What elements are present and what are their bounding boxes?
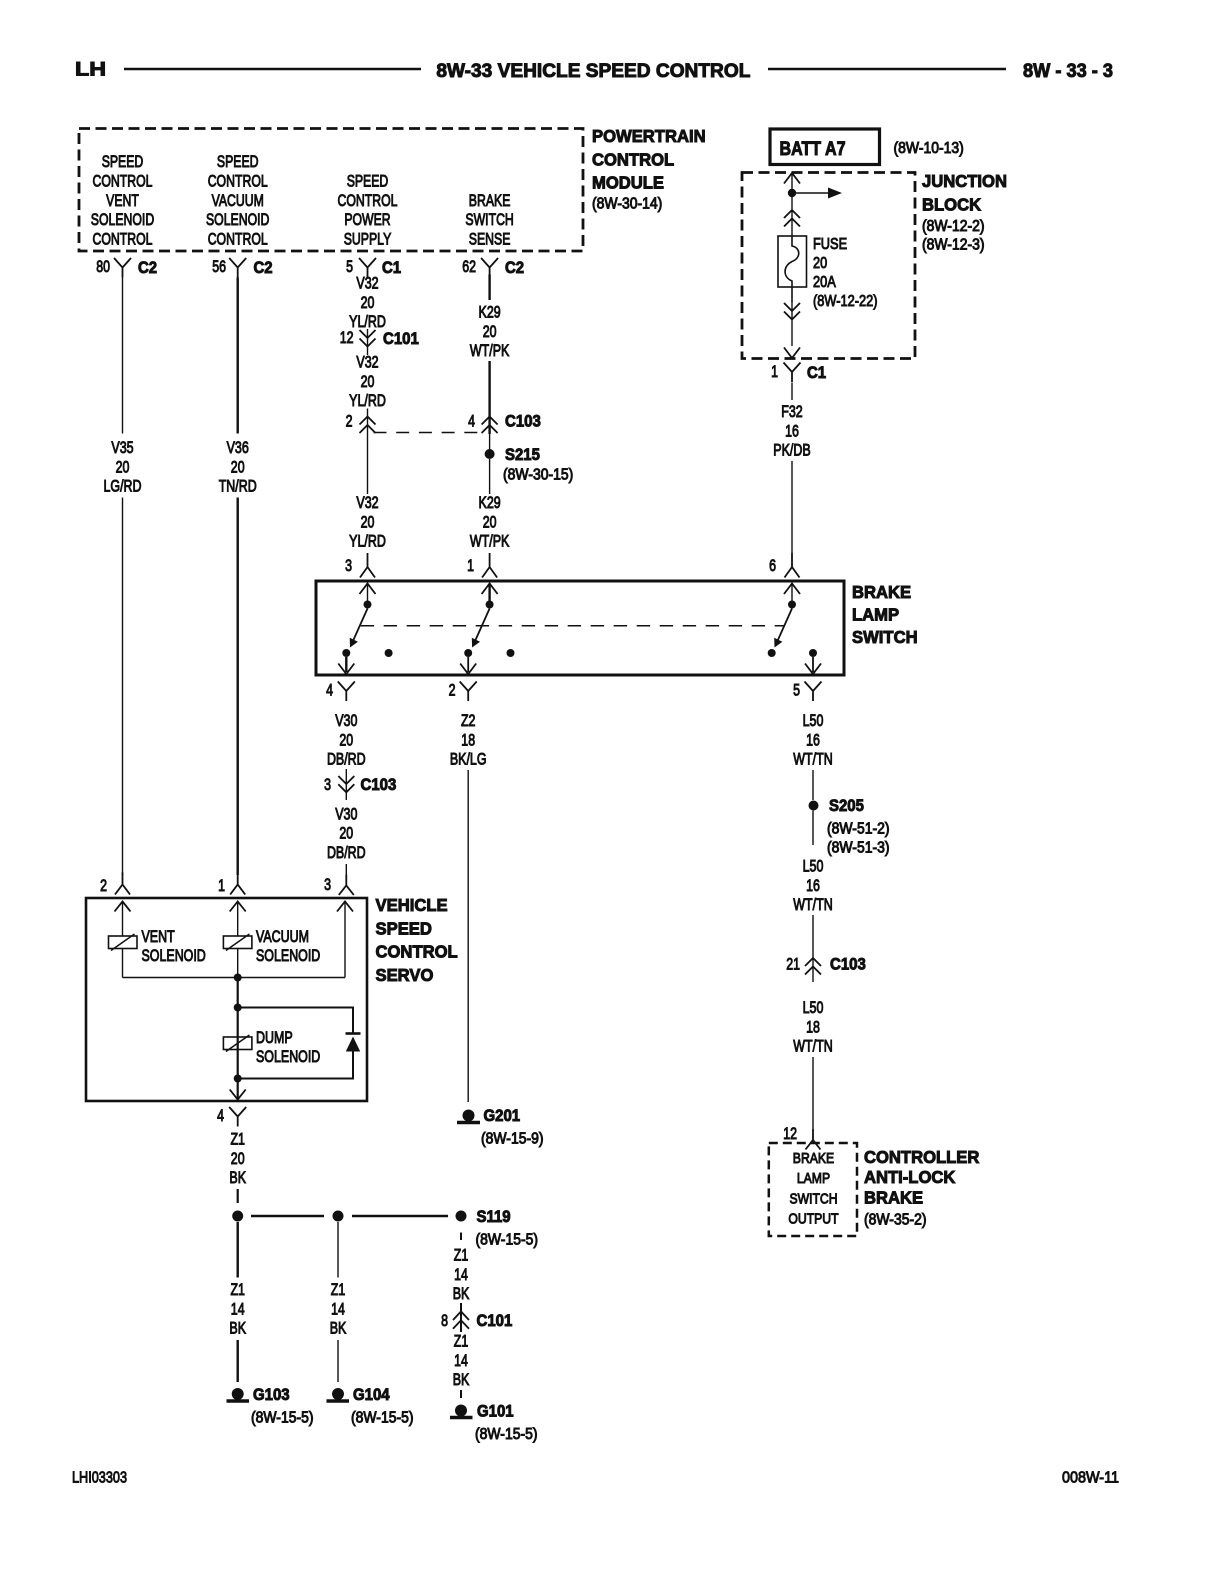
svg-text:18: 18	[461, 730, 475, 749]
svg-text:21: 21	[786, 955, 800, 974]
splice node middle	[333, 1211, 344, 1222]
svg-text:L50: L50	[803, 998, 824, 1017]
svg-text:Z1: Z1	[230, 1280, 245, 1299]
svg-text:4: 4	[468, 412, 475, 431]
svg-text:LAMP: LAMP	[852, 605, 899, 625]
servo entry arrow pin 2	[115, 902, 131, 912]
svg-text:SUPPLY: SUPPLY	[344, 230, 392, 249]
svg-text:3: 3	[324, 775, 331, 794]
connector pin 3 at servo	[339, 875, 354, 896]
svg-text:1: 1	[218, 876, 225, 895]
svg-text:8: 8	[441, 1311, 448, 1330]
svg-text:VACUUM: VACUUM	[256, 927, 309, 946]
svg-text:(8W-30-14): (8W-30-14)	[592, 196, 662, 213]
svg-text:14: 14	[454, 1351, 468, 1370]
connector C1 pin 5	[359, 258, 376, 278]
wire vent solenoid to rail	[122, 949, 124, 978]
arrow to BATT A7	[784, 173, 800, 184]
svg-text:WT/TN: WT/TN	[793, 750, 832, 769]
svg-text:S119: S119	[477, 1207, 511, 1226]
dashed link C103 between pin2 and pin4	[374, 432, 483, 434]
wire to junction block exit	[791, 302, 793, 346]
svg-text:(8W-12-3): (8W-12-3)	[922, 237, 985, 254]
svg-text:DUMP: DUMP	[256, 1028, 293, 1047]
wire to G104	[337, 1222, 339, 1278]
svg-text:Z1: Z1	[454, 1332, 469, 1351]
svg-text:S215: S215	[505, 445, 540, 464]
wire to splice S205	[812, 770, 814, 800]
connector C103 pin 3	[345, 769, 347, 800]
wire V35 upper segment	[122, 278, 124, 434]
wire Z1 dashed stub to G101	[460, 1390, 462, 1398]
svg-text:CONTROL: CONTROL	[208, 230, 268, 249]
connector C2 pin 56	[229, 258, 246, 278]
svg-text:20: 20	[361, 512, 375, 531]
svg-text:DB/RD: DB/RD	[327, 843, 366, 862]
dump branch junction node	[234, 1004, 242, 1012]
svg-text:Z1: Z1	[331, 1280, 346, 1299]
lower branch junction node	[234, 1075, 242, 1083]
connector C2 pin 62	[481, 258, 498, 278]
svg-text:20: 20	[231, 457, 245, 476]
svg-text:C103: C103	[505, 412, 541, 431]
svg-text:12: 12	[340, 328, 354, 347]
svg-text:(8W-51-3): (8W-51-3)	[827, 840, 890, 857]
svg-text:V30: V30	[335, 804, 357, 823]
svg-text:16: 16	[806, 730, 820, 749]
connector pin 5 below brake lamp switch	[805, 682, 822, 702]
svg-text:G101: G101	[477, 1402, 514, 1421]
svg-text:ANTI-LOCK: ANTI-LOCK	[864, 1167, 956, 1187]
svg-text:BRAKE: BRAKE	[852, 582, 911, 602]
svg-text:2: 2	[449, 681, 456, 700]
svg-text:SWITCH: SWITCH	[789, 1191, 837, 1207]
svg-text:SOLENOID: SOLENOID	[206, 210, 269, 229]
fuse 20 20A (8W-12-22)	[778, 236, 807, 287]
svg-text:SWITCH: SWITCH	[465, 210, 513, 229]
svg-text:C103: C103	[830, 955, 866, 974]
svg-text:(8W-15-5): (8W-15-5)	[475, 1426, 538, 1443]
svg-text:SOLENOID: SOLENOID	[256, 946, 320, 965]
controller anti-lock brake dashed box	[769, 1143, 857, 1236]
svg-text:C1: C1	[807, 363, 826, 382]
wire battery feed upper	[791, 173, 793, 193]
diode branch wiring	[238, 1008, 353, 1079]
svg-text:L50: L50	[803, 857, 824, 876]
svg-text:3: 3	[345, 556, 352, 575]
wire K29 middle segment	[488, 361, 490, 434]
svg-text:2: 2	[346, 412, 353, 431]
svg-text:008W-11: 008W-11	[1062, 1470, 1119, 1487]
svg-text:WT/PK: WT/PK	[470, 532, 509, 551]
servo entry arrow pin 1	[230, 902, 246, 912]
svg-text:(8W-15-5): (8W-15-5)	[351, 1410, 414, 1427]
wire V30 to servo	[345, 864, 347, 876]
wire F32 long segment	[791, 461, 793, 553]
svg-text:5: 5	[346, 257, 353, 276]
svg-text:CONTROL: CONTROL	[93, 171, 153, 190]
wire K29 upper segment	[488, 275, 490, 301]
ground bus right segment	[352, 1215, 448, 1218]
svg-text:L50: L50	[803, 711, 824, 730]
ground G103 (8W-15-5)	[232, 1388, 244, 1400]
svg-text:18: 18	[806, 1017, 820, 1036]
svg-text:Z2: Z2	[461, 711, 476, 730]
ground bus left segment	[251, 1215, 324, 1218]
svg-text:VACUUM: VACUUM	[212, 191, 264, 210]
svg-text:BRAKE: BRAKE	[864, 1187, 923, 1207]
wire V36 upper segment	[236, 278, 238, 434]
svg-text:BK/LG: BK/LG	[450, 750, 487, 769]
svg-text:SOLENOID: SOLENOID	[256, 1047, 320, 1066]
svg-text:20: 20	[361, 293, 375, 312]
connector C103 pin 4	[482, 417, 498, 434]
switch 1 spare contact	[385, 649, 393, 657]
connector pin 1 at brake lamp switch	[482, 553, 497, 578]
svg-text:F32: F32	[781, 402, 803, 421]
svg-text:BK: BK	[453, 1370, 470, 1389]
svg-text:SPEED: SPEED	[347, 171, 389, 190]
svg-text:(8W-30-15): (8W-30-15)	[503, 467, 573, 484]
connector pin 3 at brake lamp switch	[360, 553, 375, 578]
switch 1 contacts and blade	[360, 584, 376, 595]
wire to G103	[236, 1222, 238, 1278]
svg-text:C101: C101	[477, 1311, 513, 1330]
connector C101 pin 8	[460, 1303, 462, 1332]
connector pin 2 at servo	[115, 873, 130, 895]
svg-text:POWERTRAIN: POWERTRAIN	[592, 126, 706, 146]
arrow at junction block exit	[784, 348, 800, 359]
svg-text:LH: LH	[75, 59, 106, 81]
svg-text:14: 14	[454, 1265, 468, 1284]
switch 2 spare contact	[507, 649, 515, 657]
svg-text:C2: C2	[505, 258, 524, 277]
svg-text:CONTROL: CONTROL	[376, 942, 458, 962]
svg-text:1: 1	[467, 556, 474, 575]
svg-text:SOLENOID: SOLENOID	[91, 210, 154, 229]
svg-text:CONTROL: CONTROL	[592, 149, 674, 169]
svg-text:MODULE: MODULE	[592, 173, 664, 193]
svg-text:20: 20	[231, 1149, 245, 1168]
ground G101 (8W-15-5)	[455, 1405, 467, 1417]
dump solenoid coil	[223, 1037, 252, 1050]
svg-text:Z1: Z1	[454, 1246, 469, 1265]
center wire through dump solenoid	[237, 978, 239, 1099]
svg-text:PK/DB: PK/DB	[773, 441, 810, 460]
svg-text:BRAKE: BRAKE	[469, 191, 511, 210]
splice S205 (8W-51-2) (8W-51-3)	[809, 801, 819, 811]
svg-text:FUSE: FUSE	[813, 236, 847, 253]
diode D (clamp)	[346, 1032, 361, 1035]
svg-text:(8W-10-13): (8W-10-13)	[894, 140, 964, 157]
svg-text:BK: BK	[229, 1168, 246, 1187]
svg-text:20: 20	[361, 372, 375, 391]
svg-text:VENT: VENT	[106, 191, 139, 210]
svg-text:WT/PK: WT/PK	[470, 341, 509, 360]
svg-text:Z1: Z1	[230, 1130, 245, 1149]
svg-text:20: 20	[483, 322, 497, 341]
svg-text:20: 20	[116, 457, 130, 476]
switch gang dashed link	[361, 625, 785, 627]
svg-text:V35: V35	[111, 438, 133, 457]
wire to splice S215	[489, 434, 491, 450]
connector chevrons above fuse	[784, 210, 800, 227]
svg-text:YL/RD: YL/RD	[349, 532, 386, 551]
servo exit arrow	[230, 1090, 246, 1100]
svg-text:6: 6	[769, 556, 776, 575]
svg-text:K29: K29	[479, 493, 501, 512]
rail junction node	[234, 974, 242, 982]
svg-text:V36: V36	[227, 438, 249, 457]
header rule right	[768, 68, 1006, 71]
vehicle speed control servo box	[86, 898, 367, 1101]
power source box BATT A7	[770, 129, 880, 165]
svg-text:20: 20	[339, 824, 353, 843]
svg-text:S205: S205	[829, 796, 864, 815]
svg-text:BLOCK: BLOCK	[922, 194, 981, 214]
vent solenoid coil	[109, 936, 138, 949]
svg-text:(8W-15-5): (8W-15-5)	[476, 1232, 539, 1249]
connector pin 1 at servo	[230, 873, 245, 895]
connector C1 pin 1	[784, 363, 801, 383]
junction node with branch arrow	[788, 189, 796, 197]
svg-text:62: 62	[462, 257, 476, 276]
wire L50 to controller	[812, 1057, 814, 1129]
svg-text:(8W-35-2): (8W-35-2)	[864, 1212, 927, 1229]
vacuum solenoid coil	[223, 936, 252, 949]
wire F32 upper stub	[791, 383, 793, 401]
connector pin 4 below brake lamp switch	[338, 682, 355, 702]
svg-text:C1: C1	[382, 258, 401, 277]
svg-text:G104: G104	[353, 1385, 390, 1404]
svg-text:CONTROL: CONTROL	[338, 191, 398, 210]
svg-text:16: 16	[785, 421, 799, 440]
svg-text:TN/RD: TN/RD	[219, 477, 257, 496]
svg-text:OUTPUT: OUTPUT	[788, 1212, 838, 1228]
connector C2 pin 80	[114, 258, 131, 278]
svg-text:SPEED: SPEED	[376, 918, 432, 938]
wire Z2 long segment to ground	[467, 770, 469, 1102]
svg-text:LAMP: LAMP	[797, 1171, 830, 1187]
svg-text:8W - 33 - 3: 8W - 33 - 3	[1023, 60, 1113, 82]
svg-text:V30: V30	[335, 711, 357, 730]
svg-text:SERVO: SERVO	[376, 965, 434, 985]
connector pin 4 below servo	[229, 1107, 246, 1127]
wire V36 lower segment	[236, 498, 238, 876]
svg-text:(8W-12-22): (8W-12-22)	[813, 293, 878, 310]
svg-text:SENSE: SENSE	[469, 230, 511, 249]
svg-text:80: 80	[96, 257, 110, 276]
svg-text:CONTROL: CONTROL	[93, 230, 153, 249]
svg-text:JUNCTION: JUNCTION	[922, 171, 1007, 191]
svg-text:4: 4	[217, 1106, 224, 1125]
svg-text:BK: BK	[330, 1319, 347, 1338]
svg-text:12: 12	[783, 1124, 797, 1143]
connector pin 6 at brake lamp switch	[785, 553, 800, 578]
svg-text:WT/TN: WT/TN	[793, 895, 832, 914]
svg-text:(8W-15-9): (8W-15-9)	[481, 1131, 544, 1148]
ground G104 (8W-15-5)	[332, 1388, 344, 1400]
svg-text:20: 20	[339, 730, 353, 749]
svg-text:20A: 20A	[813, 274, 836, 291]
svg-text:YL/RD: YL/RD	[349, 391, 386, 410]
svg-text:LHI03303: LHI03303	[72, 1470, 127, 1487]
svg-text:G103: G103	[253, 1385, 290, 1404]
svg-text:K29: K29	[479, 303, 501, 322]
svg-text:20: 20	[483, 512, 497, 531]
svg-text:POWER: POWER	[344, 210, 390, 229]
splice node left	[232, 1211, 243, 1222]
svg-text:BRAKE: BRAKE	[793, 1151, 835, 1167]
svg-text:2: 2	[100, 876, 107, 895]
wire to fuse	[791, 193, 793, 236]
svg-text:20: 20	[813, 255, 827, 272]
svg-text:V32: V32	[356, 274, 378, 293]
svg-text:LG/RD: LG/RD	[104, 477, 142, 496]
svg-text:BK: BK	[453, 1284, 470, 1303]
svg-text:DB/RD: DB/RD	[327, 750, 366, 769]
svg-text:BK: BK	[229, 1319, 246, 1338]
junction block dashed box	[742, 173, 915, 359]
wire to vent solenoid	[122, 902, 124, 937]
svg-text:SOLENOID: SOLENOID	[142, 946, 206, 965]
svg-text:8W-33 VEHICLE SPEED CONTROL: 8W-33 VEHICLE SPEED CONTROL	[436, 60, 750, 82]
switch 3 output contact	[809, 649, 817, 657]
svg-text:(8W-12-2): (8W-12-2)	[922, 218, 985, 235]
ground G201 (8W-15-9)	[463, 1110, 475, 1122]
svg-text:C2: C2	[254, 258, 273, 277]
svg-text:5: 5	[793, 681, 800, 700]
svg-text:14: 14	[331, 1299, 345, 1318]
wire Z1 dashed stub	[237, 1189, 239, 1203]
connector pin 2 below brake lamp switch	[460, 682, 477, 702]
wire L50 segment	[812, 915, 814, 982]
svg-text:VEHICLE: VEHICLE	[376, 895, 448, 915]
connector chevrons below fuse	[784, 303, 800, 320]
svg-text:VENT: VENT	[142, 927, 175, 946]
svg-text:CONTROLLER: CONTROLLER	[864, 1147, 980, 1167]
svg-text:SWITCH: SWITCH	[852, 627, 918, 647]
svg-text:14: 14	[231, 1299, 245, 1318]
svg-text:YL/RD: YL/RD	[349, 312, 386, 331]
svg-text:4: 4	[326, 681, 333, 700]
connector pin 12 at controller	[806, 1129, 821, 1150]
servo entry arrow pin 3	[337, 902, 353, 912]
svg-text:WT/TN: WT/TN	[793, 1037, 832, 1056]
wire vacuum solenoid to rail	[237, 949, 239, 978]
svg-text:1: 1	[771, 362, 778, 381]
switch 2 contacts and blade	[482, 584, 498, 595]
powertrain control module dashed box	[79, 129, 583, 252]
wire to vacuum solenoid	[237, 902, 239, 937]
switch 3 contacts and blade	[784, 584, 800, 595]
header rule left	[124, 68, 421, 71]
svg-text:G201: G201	[484, 1106, 521, 1125]
svg-text:BATT A7: BATT A7	[780, 139, 846, 160]
svg-text:56: 56	[212, 257, 226, 276]
svg-text:16: 16	[806, 876, 820, 895]
svg-text:V32: V32	[356, 353, 378, 372]
svg-text:(8W-15-5): (8W-15-5)	[251, 1410, 314, 1427]
splice S119 (8W-15-5)	[456, 1211, 467, 1222]
wire pin 3 to rail	[344, 902, 346, 978]
wire V35 lower segment	[122, 498, 124, 876]
svg-text:SPEED: SPEED	[102, 152, 144, 171]
splice S215 (8W-30-15)	[485, 449, 495, 459]
ground rail inside servo	[123, 977, 346, 979]
svg-text:(8W-51-2): (8W-51-2)	[827, 821, 890, 838]
svg-text:3: 3	[324, 875, 331, 894]
connector C103 pin 2	[367, 409, 369, 495]
svg-text:CONTROL: CONTROL	[208, 171, 268, 190]
svg-text:C101: C101	[383, 329, 419, 348]
svg-text:V32: V32	[356, 493, 378, 512]
svg-text:C103: C103	[361, 775, 397, 794]
svg-text:C2: C2	[138, 258, 157, 277]
brake lamp switch box	[316, 581, 844, 675]
connector C101 pin 12	[367, 329, 369, 355]
svg-text:SPEED: SPEED	[217, 152, 259, 171]
connector C103 pin 21	[805, 958, 821, 975]
